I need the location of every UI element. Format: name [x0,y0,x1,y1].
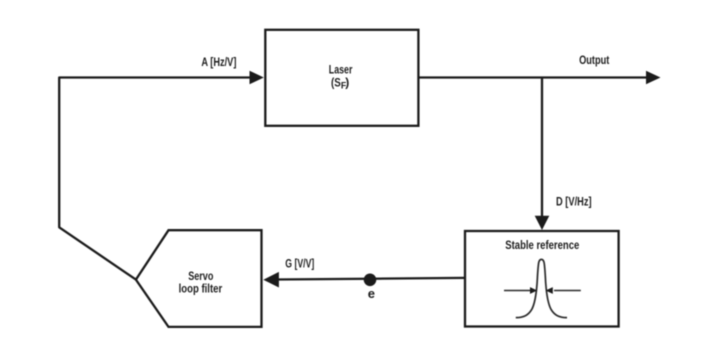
svg-text:Output: Output [579,53,609,67]
arrowhead down [535,216,550,230]
wire G from stable reference to servo [276,278,465,280]
node e dot [364,274,377,287]
svg-text:e: e [368,286,375,301]
svg-text:A [Hz/V]: A [Hz/V] [201,55,236,69]
servo loop filter block [136,230,262,327]
arrowhead output [646,71,661,85]
laser block U1 [265,30,418,126]
svg-text:): ) [345,75,349,89]
svg-text:D [V/Hz]: D [V/Hz] [556,194,592,208]
svg-text:loop filter: loop filter [179,282,223,296]
wire input A with feedback left vertical and diagonal [59,78,252,280]
resonance peak curve [516,259,567,317]
wire junction down to stable reference [541,78,543,218]
wire output [418,76,647,78]
arrowhead into servo [263,272,279,288]
svg-text:G [V/V]: G [V/V] [285,257,314,271]
stable reference block [465,231,619,327]
arrowhead into laser [250,71,264,85]
svg-text:Stable reference: Stable reference [505,238,579,252]
svg-text:(S: (S [331,75,341,89]
linewidth arrow right [554,290,581,292]
linewidth arrow left [504,290,531,292]
